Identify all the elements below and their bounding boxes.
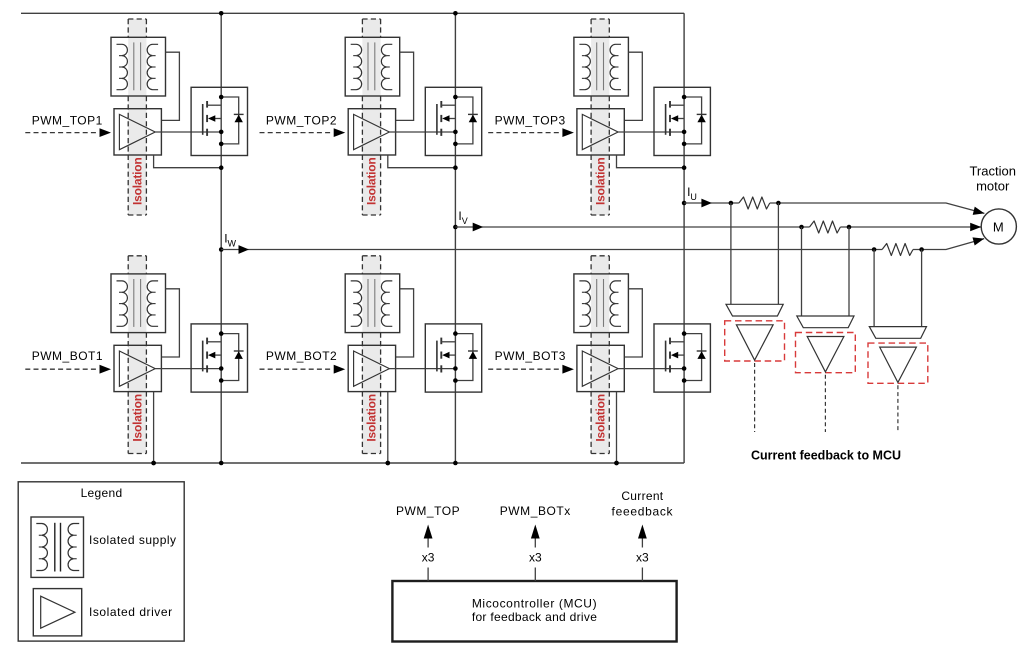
svg-text:Isolation: Isolation (130, 157, 144, 205)
svg-text:Legend: Legend (81, 486, 123, 500)
svg-text:M: M (993, 219, 1004, 234)
svg-text:x3: x3 (422, 551, 435, 565)
svg-text:Isolation: Isolation (365, 394, 379, 442)
svg-text:PWM_TOP1: PWM_TOP1 (32, 114, 103, 128)
svg-text:feeedback: feeedback (612, 505, 674, 519)
svg-text:x3: x3 (529, 551, 542, 565)
svg-text:PWM_TOP2: PWM_TOP2 (266, 114, 337, 128)
svg-text:Current: Current (621, 489, 663, 503)
svg-text:V: V (462, 216, 468, 226)
svg-text:U: U (690, 192, 697, 202)
svg-text:Current feedback to MCU: Current feedback to MCU (751, 449, 901, 463)
svg-text:PWM_BOT2: PWM_BOT2 (266, 349, 337, 363)
svg-text:x3: x3 (636, 551, 649, 565)
svg-text:Isolated supply: Isolated supply (89, 533, 177, 547)
svg-text:PWM_BOT1: PWM_BOT1 (32, 349, 103, 363)
svg-text:motor: motor (976, 178, 1010, 193)
svg-text:Isolation: Isolation (130, 394, 144, 442)
svg-text:PWM_TOP: PWM_TOP (396, 504, 460, 518)
svg-text:Isolation: Isolation (593, 157, 607, 205)
svg-text:PWM_BOT3: PWM_BOT3 (495, 349, 566, 363)
svg-text:Isolated driver: Isolated driver (89, 605, 173, 619)
svg-text:Isolation: Isolation (593, 394, 607, 442)
svg-text:PWM_TOP3: PWM_TOP3 (495, 114, 566, 128)
svg-text:for feedback and drive: for feedback and drive (472, 610, 597, 624)
svg-text:Micocontroller (MCU): Micocontroller (MCU) (472, 596, 597, 610)
svg-text:W: W (228, 239, 237, 249)
svg-text:Isolation: Isolation (365, 157, 379, 205)
svg-text:Traction: Traction (969, 163, 1015, 178)
svg-text:PWM_BOTx: PWM_BOTx (500, 504, 571, 518)
